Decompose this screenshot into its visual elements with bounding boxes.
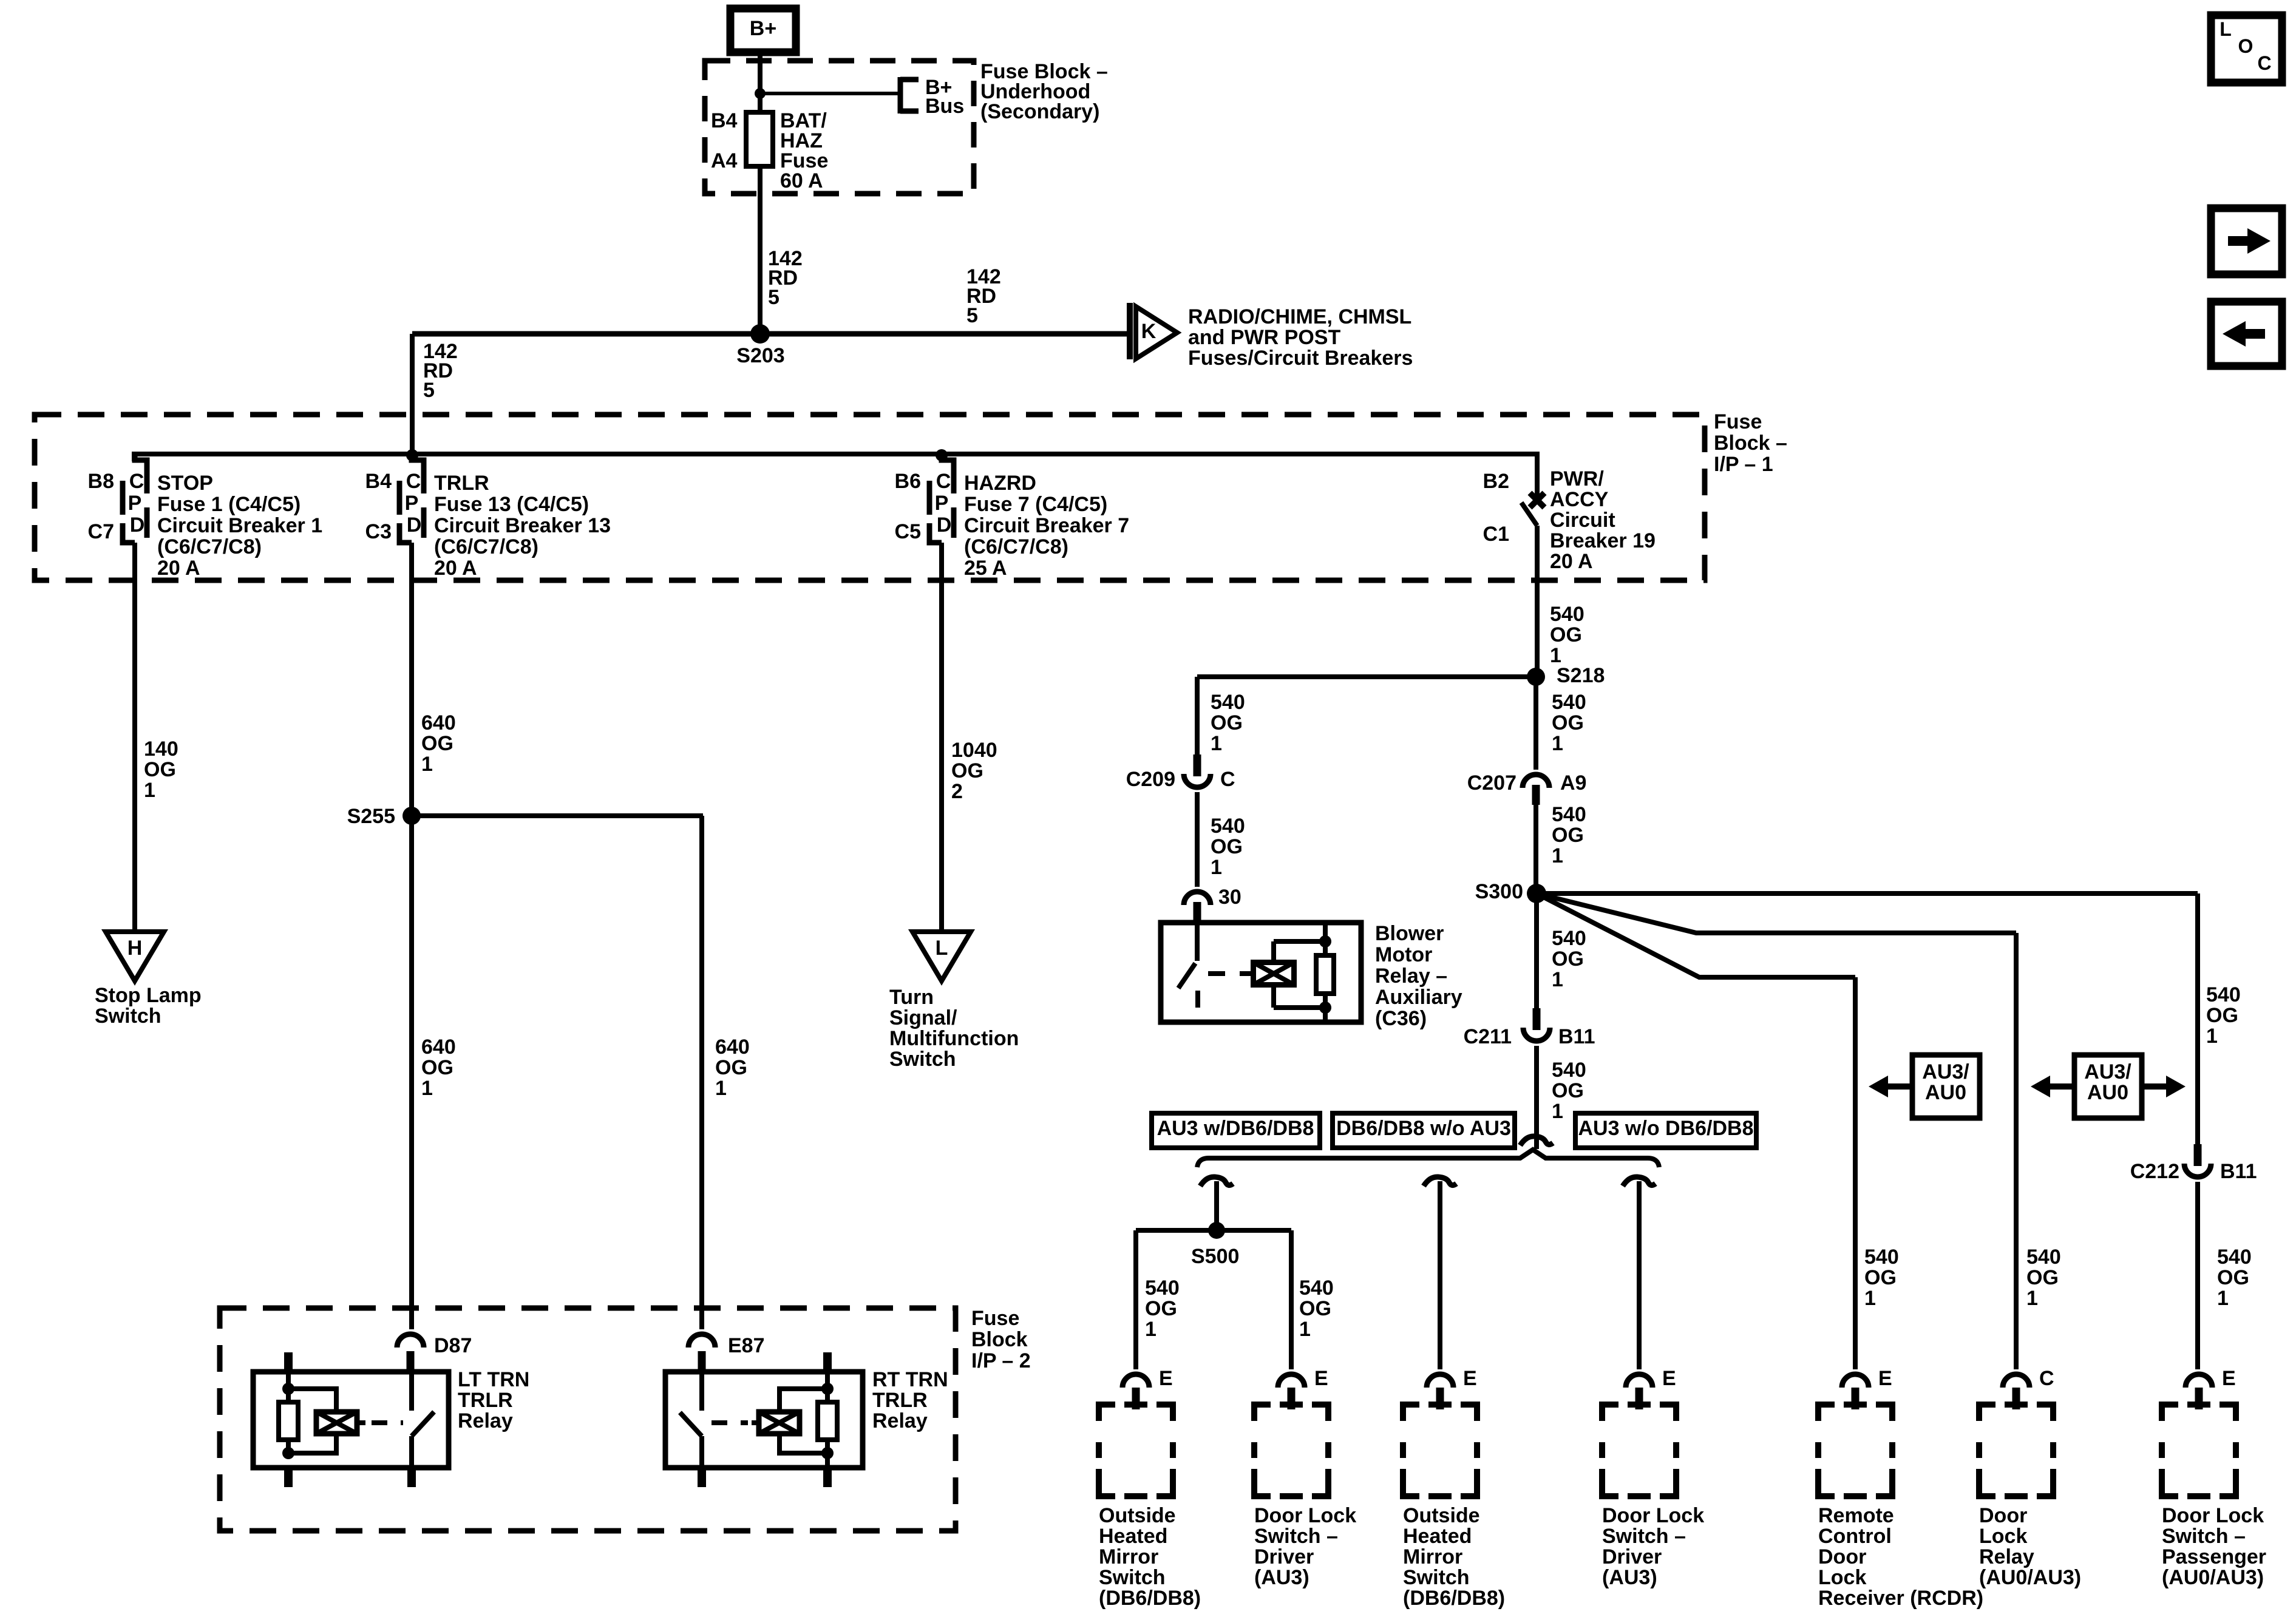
svg-text:OG: OG: [1211, 835, 1243, 858]
svg-text:C3: C3: [365, 520, 392, 543]
svg-text:Fuse: Fuse: [1714, 410, 1762, 433]
svg-text:Heated: Heated: [1099, 1525, 1167, 1548]
svg-text:540: 540: [2026, 1246, 2061, 1269]
svg-text:640: 640: [421, 1036, 456, 1059]
svg-text:E: E: [1159, 1367, 1173, 1390]
svg-text:OG: OG: [1552, 711, 1584, 734]
svg-text:Fuse 7 (C4/C5): Fuse 7 (C4/C5): [964, 493, 1107, 516]
svg-text:OG: OG: [1552, 1079, 1584, 1102]
svg-text:P: P: [935, 492, 949, 515]
svg-text:OG: OG: [1550, 623, 1582, 646]
svg-text:(AU3): (AU3): [1254, 1566, 1309, 1589]
svg-text:L: L: [2220, 18, 2232, 40]
svg-text:E: E: [1463, 1367, 1477, 1390]
svg-text:D: D: [130, 514, 145, 537]
svg-text:540: 540: [1211, 815, 1245, 838]
svg-text:C: C: [2039, 1367, 2054, 1390]
svg-text:1: 1: [2206, 1025, 2218, 1048]
svg-text:1: 1: [715, 1077, 727, 1100]
svg-text:Fuse 1 (C4/C5): Fuse 1 (C4/C5): [157, 493, 301, 516]
svg-text:1: 1: [2026, 1287, 2038, 1310]
svg-text:Door Lock: Door Lock: [2162, 1504, 2264, 1527]
svg-text:A9: A9: [1560, 771, 1586, 795]
svg-text:Fuse 13 (C4/C5): Fuse 13 (C4/C5): [434, 493, 589, 516]
svg-text:Driver: Driver: [1254, 1545, 1314, 1568]
svg-text:540: 540: [1145, 1276, 1180, 1300]
svg-text:Relay: Relay: [872, 1409, 928, 1432]
svg-text:Block –: Block –: [1714, 432, 1787, 455]
svg-text:S300: S300: [1475, 880, 1523, 903]
svg-text:1: 1: [1211, 732, 1222, 755]
svg-text:Switch: Switch: [95, 1005, 161, 1028]
svg-text:E: E: [1878, 1367, 1892, 1390]
svg-text:1: 1: [1145, 1318, 1156, 1341]
svg-text:Heated: Heated: [1403, 1525, 1472, 1548]
svg-text:Door: Door: [1818, 1545, 1866, 1568]
svg-text:Remote: Remote: [1818, 1504, 1894, 1527]
svg-text:Receiver (RCDR): Receiver (RCDR): [1818, 1587, 1983, 1610]
svg-text:(AU0/AU3): (AU0/AU3): [2162, 1566, 2264, 1589]
svg-text:D87: D87: [434, 1334, 472, 1357]
svg-text:1: 1: [1552, 968, 1563, 991]
svg-text:S203: S203: [736, 344, 784, 367]
svg-text:Mirror: Mirror: [1403, 1545, 1462, 1568]
svg-text:B+: B+: [750, 17, 776, 40]
svg-text:Signal/: Signal/: [889, 1006, 957, 1029]
svg-text:1: 1: [1864, 1287, 1876, 1310]
svg-text:DB6/DB8 w/o AU3: DB6/DB8 w/o AU3: [1336, 1117, 1511, 1140]
svg-text:Passenger: Passenger: [2162, 1545, 2266, 1568]
svg-text:OG: OG: [1145, 1297, 1177, 1320]
svg-text:C1: C1: [1483, 523, 1509, 546]
svg-text:S500: S500: [1191, 1245, 1239, 1268]
svg-text:(C6/C7/C8): (C6/C7/C8): [964, 535, 1068, 558]
svg-text:Fuse: Fuse: [971, 1307, 1019, 1330]
svg-text:Switch –: Switch –: [2162, 1525, 2246, 1548]
svg-text:Circuit Breaker 1: Circuit Breaker 1: [157, 514, 322, 537]
svg-text:1: 1: [1552, 732, 1563, 755]
svg-text:K: K: [1141, 320, 1156, 343]
svg-text:D: D: [937, 514, 952, 537]
svg-text:1: 1: [421, 753, 433, 776]
svg-text:ACCY: ACCY: [1550, 488, 1609, 511]
svg-text:540: 540: [1211, 691, 1245, 714]
svg-text:STOP: STOP: [157, 472, 213, 495]
svg-text:30: 30: [1218, 886, 1241, 909]
svg-text:Switch –: Switch –: [1254, 1525, 1338, 1548]
svg-text:TRLR: TRLR: [434, 472, 489, 495]
svg-text:Door Lock: Door Lock: [1254, 1504, 1356, 1527]
svg-text:540: 540: [1550, 603, 1584, 626]
svg-text:60 A: 60 A: [780, 169, 823, 192]
svg-text:AU0: AU0: [2087, 1081, 2128, 1104]
svg-text:1: 1: [1552, 844, 1563, 867]
svg-text:(C36): (C36): [1375, 1007, 1427, 1030]
svg-text:540: 540: [1864, 1246, 1899, 1269]
svg-text:1: 1: [1211, 856, 1222, 879]
svg-text:Relay –: Relay –: [1375, 964, 1447, 988]
svg-text:(Secondary): (Secondary): [980, 100, 1100, 123]
svg-text:C209: C209: [1126, 768, 1175, 791]
svg-text:OG: OG: [144, 758, 176, 781]
svg-text:5: 5: [768, 286, 779, 309]
svg-text:C: C: [129, 470, 144, 493]
svg-text:1040: 1040: [951, 739, 997, 762]
svg-text:OG: OG: [1552, 947, 1584, 971]
svg-text:H: H: [127, 937, 143, 960]
svg-text:A4: A4: [711, 149, 738, 172]
svg-text:(DB6/DB8): (DB6/DB8): [1403, 1587, 1505, 1610]
svg-text:and PWR POST: and PWR POST: [1188, 326, 1340, 349]
svg-text:Outside: Outside: [1099, 1504, 1176, 1527]
svg-text:Block: Block: [971, 1328, 1028, 1351]
svg-text:Stop Lamp: Stop Lamp: [95, 984, 202, 1007]
svg-text:1: 1: [1552, 1100, 1563, 1123]
svg-text:C207: C207: [1467, 771, 1517, 795]
svg-text:5: 5: [966, 304, 978, 327]
svg-text:OG: OG: [951, 759, 983, 782]
svg-text:AU3/: AU3/: [2084, 1060, 2131, 1083]
svg-text:20 A: 20 A: [1550, 550, 1593, 573]
svg-text:I/P – 2: I/P – 2: [971, 1349, 1031, 1372]
svg-text:E87: E87: [728, 1334, 765, 1357]
svg-text:640: 640: [421, 711, 456, 734]
svg-text:Circuit Breaker 7: Circuit Breaker 7: [964, 514, 1129, 537]
svg-text:B6: B6: [895, 470, 921, 493]
svg-text:Auxiliary: Auxiliary: [1375, 986, 1462, 1009]
svg-text:Relay: Relay: [1979, 1545, 2034, 1568]
svg-text:P: P: [128, 492, 142, 515]
svg-text:AU0: AU0: [1925, 1081, 1966, 1104]
svg-text:I/P – 1: I/P – 1: [1714, 453, 1773, 476]
svg-text:OG: OG: [1552, 824, 1584, 847]
svg-text:Circuit: Circuit: [1550, 509, 1615, 532]
svg-text:D: D: [407, 514, 422, 537]
svg-text:540: 540: [1552, 691, 1586, 714]
svg-text:Mirror: Mirror: [1099, 1545, 1158, 1568]
svg-text:S255: S255: [347, 805, 395, 828]
svg-text:B4: B4: [711, 109, 738, 132]
svg-text:Lock: Lock: [1818, 1566, 1866, 1589]
svg-text:20 A: 20 A: [434, 557, 477, 580]
svg-text:140: 140: [144, 737, 178, 761]
svg-text:5: 5: [423, 379, 435, 402]
svg-text:2: 2: [951, 780, 963, 803]
svg-text:Driver: Driver: [1602, 1545, 1662, 1568]
svg-text:B4: B4: [365, 470, 392, 493]
svg-text:(C6/C7/C8): (C6/C7/C8): [157, 535, 262, 558]
svg-text:C: C: [406, 470, 421, 493]
svg-text:C7: C7: [88, 520, 114, 543]
svg-text:OG: OG: [2026, 1266, 2059, 1289]
svg-text:540: 540: [2206, 983, 2241, 1006]
svg-text:Multifunction: Multifunction: [889, 1027, 1019, 1050]
svg-text:C: C: [936, 470, 951, 493]
svg-text:Door Lock: Door Lock: [1602, 1504, 1704, 1527]
svg-text:1: 1: [421, 1077, 433, 1100]
svg-text:540: 540: [1552, 1059, 1586, 1082]
svg-text:OG: OG: [2217, 1266, 2249, 1289]
svg-text:C5: C5: [895, 520, 921, 543]
svg-text:OG: OG: [1299, 1297, 1331, 1320]
svg-text:RADIO/CHIME, CHMSL: RADIO/CHIME, CHMSL: [1188, 305, 1411, 328]
svg-text:B2: B2: [1483, 470, 1509, 493]
svg-text:Switch: Switch: [1099, 1566, 1166, 1589]
svg-text:(DB6/DB8): (DB6/DB8): [1099, 1587, 1201, 1610]
svg-text:P: P: [405, 492, 419, 515]
svg-text:B11: B11: [1558, 1025, 1595, 1048]
svg-text:1: 1: [2217, 1287, 2229, 1310]
svg-text:540: 540: [1299, 1276, 1334, 1300]
svg-text:Motor: Motor: [1375, 943, 1432, 966]
svg-text:540: 540: [2217, 1246, 2252, 1269]
svg-text:(AU0/AU3): (AU0/AU3): [1979, 1566, 2081, 1589]
svg-text:LT TRN: LT TRN: [458, 1368, 529, 1391]
svg-text:(AU3): (AU3): [1602, 1566, 1657, 1589]
svg-text:Control: Control: [1818, 1525, 1892, 1548]
svg-text:PWR/: PWR/: [1550, 467, 1604, 490]
svg-text:Switch: Switch: [1403, 1566, 1470, 1589]
svg-text:540: 540: [1552, 927, 1586, 950]
svg-text:Outside: Outside: [1403, 1504, 1480, 1527]
svg-text:AU3 w/DB6/DB8: AU3 w/DB6/DB8: [1157, 1117, 1314, 1140]
svg-text:OG: OG: [421, 1056, 453, 1079]
svg-text:Switch: Switch: [889, 1048, 956, 1071]
svg-text:B8: B8: [88, 470, 114, 493]
svg-text:TRLR: TRLR: [872, 1389, 928, 1412]
svg-text:AU3/: AU3/: [1922, 1060, 1969, 1083]
svg-text:OG: OG: [715, 1056, 747, 1079]
svg-text:E: E: [1662, 1367, 1676, 1390]
svg-text:L: L: [936, 937, 948, 960]
svg-text:O: O: [2238, 35, 2254, 57]
svg-text:OG: OG: [421, 732, 453, 755]
svg-text:1: 1: [1299, 1318, 1311, 1341]
svg-text:Switch –: Switch –: [1602, 1525, 1686, 1548]
svg-text:C212: C212: [2130, 1160, 2179, 1183]
svg-text:Bus: Bus: [925, 95, 964, 118]
svg-text:AU3 w/o DB6/DB8: AU3 w/o DB6/DB8: [1578, 1117, 1753, 1140]
svg-text:C211: C211: [1464, 1025, 1512, 1048]
svg-text:640: 640: [715, 1036, 750, 1059]
svg-text:C: C: [2257, 52, 2271, 74]
svg-text:OG: OG: [2206, 1004, 2238, 1027]
svg-text:HAZRD: HAZRD: [964, 472, 1036, 495]
svg-text:Door: Door: [1979, 1504, 2027, 1527]
svg-text:Blower: Blower: [1375, 922, 1444, 945]
svg-text:Relay: Relay: [458, 1409, 513, 1432]
svg-text:20 A: 20 A: [157, 557, 200, 580]
svg-text:Turn: Turn: [889, 986, 934, 1009]
svg-text:1: 1: [144, 779, 155, 802]
svg-text:25 A: 25 A: [964, 557, 1007, 580]
svg-text:RT TRN: RT TRN: [872, 1368, 948, 1391]
svg-text:540: 540: [1552, 803, 1586, 826]
svg-text:TRLR: TRLR: [458, 1389, 513, 1412]
svg-text:Lock: Lock: [1979, 1525, 2027, 1548]
svg-text:OG: OG: [1864, 1266, 1897, 1289]
svg-text:(C6/C7/C8): (C6/C7/C8): [434, 535, 538, 558]
svg-text:E: E: [1314, 1367, 1328, 1390]
svg-text:E: E: [2222, 1367, 2236, 1390]
svg-text:B11: B11: [2220, 1160, 2257, 1183]
svg-text:Circuit Breaker 13: Circuit Breaker 13: [434, 514, 611, 537]
svg-text:OG: OG: [1211, 711, 1243, 734]
svg-text:C: C: [1220, 768, 1235, 791]
svg-text:Breaker 19: Breaker 19: [1550, 529, 1656, 552]
svg-text:Fuses/Circuit Breakers: Fuses/Circuit Breakers: [1188, 347, 1413, 370]
svg-text:S218: S218: [1557, 664, 1605, 687]
